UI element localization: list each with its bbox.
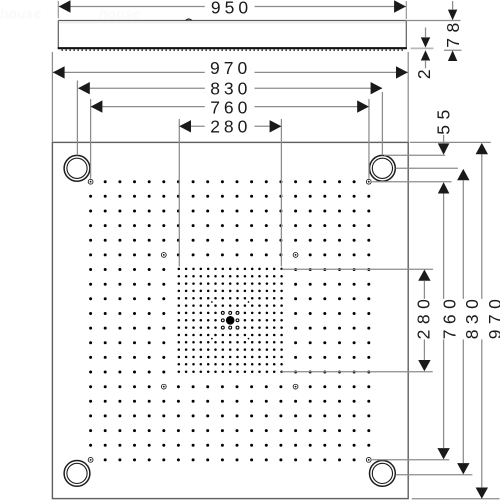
extension line dense zone right up [280, 119, 282, 266]
svg-text:830: 830 [210, 79, 251, 99]
extension line circle top tangent [384, 154, 445, 156]
svg-text:house: house [99, 5, 140, 21]
dimension 950 right arrow [394, 0, 406, 12]
dimension 830 vertical line [462, 180, 464, 299]
extension line square left edge up [51, 52, 53, 142]
dimension 280 vertical arrows [418, 270, 430, 281]
svg-text:280: 280 [413, 294, 433, 340]
dimension 760 line [91, 106, 205, 108]
dimension 970 vertical line [481, 154, 483, 299]
dimension 55 top arrow [438, 143, 450, 154]
dimension 950 left arrow [59, 0, 71, 12]
corner spray circle top-right [370, 155, 396, 181]
dimension 760 bottom arrow [437, 448, 449, 459]
svg-text:760: 760 [210, 97, 251, 117]
extension line right marked nozzle up [368, 99, 370, 179]
sparse nozzle grid [89, 180, 370, 461]
svg-text:970: 970 [485, 294, 500, 340]
extension line for 78 bottom [444, 49, 462, 51]
svg-text:78: 78 [443, 17, 463, 47]
extension line square top right [410, 141, 491, 143]
extension line left circle centre up [76, 81, 78, 156]
dimension 280 line [179, 125, 204, 127]
side view panel bottom edge (thick) [58, 47, 407, 49]
dimension 280 vertical line [423, 281, 425, 299]
extension line dense zone bottom right [282, 371, 433, 373]
dimension 760 vertical line [443, 194, 445, 299]
dimension 2 bottom arrow [421, 50, 430, 60]
side view panel inner top line [59, 22, 405, 24]
dimension 950 line [59, 6, 205, 8]
dense center nozzle grid [178, 268, 283, 373]
extension line dense zone left up [178, 119, 180, 266]
svg-text:280: 280 [210, 117, 251, 137]
detail bump on panel top [186, 19, 192, 20]
corner spray circle bottom-left [64, 461, 90, 487]
marked nozzles (circled dots) [88, 179, 371, 462]
dimension 970 arrows [53, 66, 65, 78]
svg-text:830: 830 [462, 294, 482, 340]
nozzle ticks under side view [62, 49, 403, 51]
tiny diagonal nozzles [211, 301, 249, 339]
svg-text:970: 970 [210, 58, 251, 78]
dimension 970 line [53, 71, 205, 73]
dimension 830 vertical arrows [457, 169, 469, 180]
center outlet dot [226, 316, 235, 325]
extension line marked nozzle row (top) [372, 181, 451, 183]
extension line dense zone top right [282, 268, 434, 270]
dimension 280 arrows [179, 120, 191, 132]
extension line square right edge up [407, 52, 409, 142]
2mm offset line (light) [411, 47, 434, 49]
dimension 760 arrows [91, 100, 103, 112]
extension line left for 950 [57, 1, 59, 18]
svg-text:55: 55 [434, 104, 454, 134]
extension line right for 950 [405, 1, 407, 19]
extension line panel top right [406, 20, 460, 22]
dimension 2 top arrow [421, 37, 430, 47]
svg-text:760: 760 [440, 294, 460, 340]
front view square panel [52, 142, 408, 498]
extension line square bottom right [412, 498, 500, 500]
extension line marked nozzle row (bottom) [372, 459, 449, 461]
hollow nozzles around center [221, 311, 239, 329]
dimension 970 vertical arrows [476, 143, 488, 154]
dimension 78 bottom arrow [448, 50, 457, 61]
dimension 2 line lower [425, 61, 427, 69]
dimension 78 line upper [452, 1, 454, 10]
extension line circle centre right (top) [396, 167, 458, 169]
dimension 55 bottom / 760 top arrow [438, 182, 450, 193]
extension line left marked nozzle up [90, 99, 92, 179]
extension line right circle centre up [381, 92, 383, 155]
svg-text:2: 2 [414, 64, 434, 79]
dimension 830 arrows [78, 82, 90, 94]
watermark [0, 5, 140, 21]
dimension 78 top arrow [448, 10, 457, 21]
corner spray circle bottom-right [370, 461, 396, 487]
extension line circle centre right (bottom) [396, 474, 473, 476]
corner spray circle top-left [64, 155, 90, 181]
svg-text:house: house [0, 5, 41, 21]
dimension 830 line [78, 87, 204, 89]
side view panel outline [58, 21, 406, 49]
dimension 2 line upper [425, 28, 427, 38]
dimension 55 line [443, 135, 445, 143]
svg-text:950: 950 [211, 0, 252, 17]
